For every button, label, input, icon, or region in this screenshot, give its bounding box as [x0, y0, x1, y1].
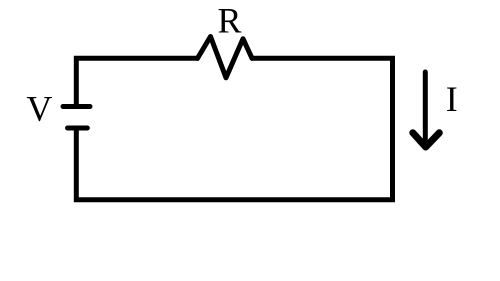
svg-text:I: I: [446, 79, 458, 119]
svg-text:V: V: [26, 89, 52, 129]
svg-text:R: R: [217, 1, 241, 41]
